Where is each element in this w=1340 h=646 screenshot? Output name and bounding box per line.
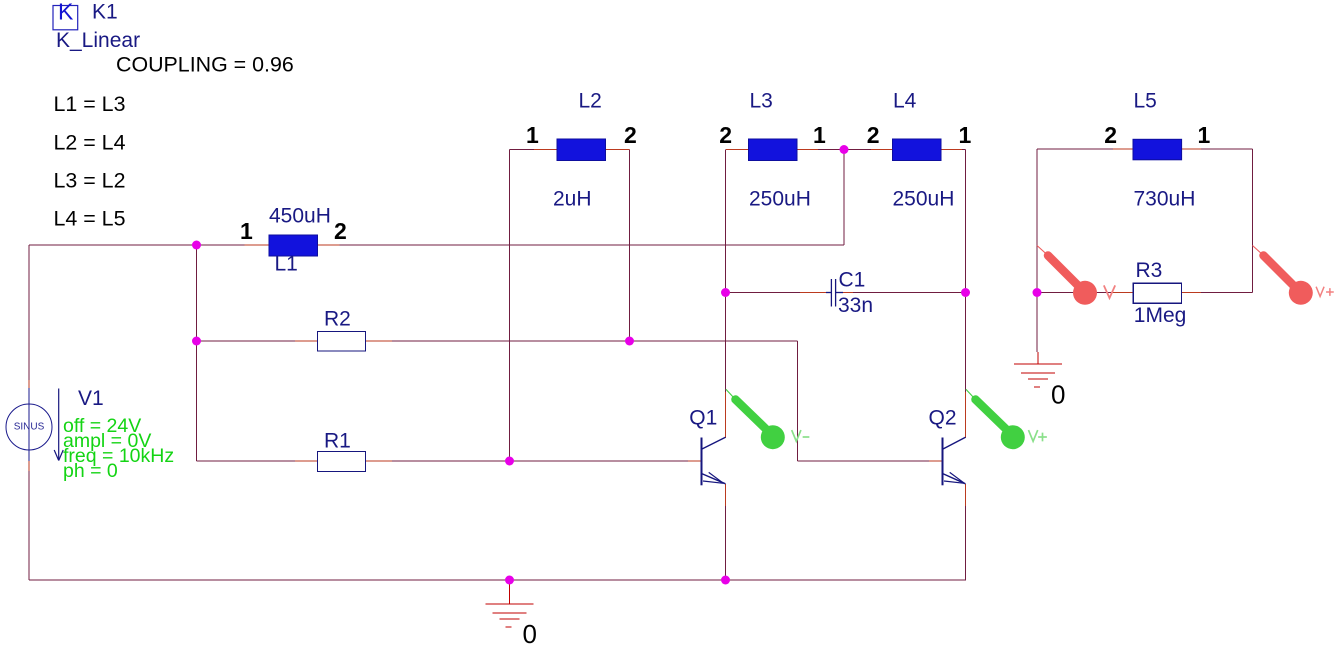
svg-text:L3 = L2: L3 = L2 <box>54 169 126 193</box>
svg-text:L5: L5 <box>1134 90 1157 113</box>
svg-text:1: 1 <box>526 122 539 148</box>
svg-text:2: 2 <box>334 218 347 244</box>
svg-text:0: 0 <box>1051 380 1065 410</box>
svg-text:SINUS: SINUS <box>14 421 45 432</box>
svg-text:33n: 33n <box>838 294 873 317</box>
svg-text:2uH: 2uH <box>553 187 592 210</box>
svg-text:730uH: 730uH <box>1134 187 1196 210</box>
svg-text:K1: K1 <box>92 1 118 24</box>
svg-text:C1: C1 <box>839 268 866 291</box>
svg-text:2: 2 <box>624 122 637 148</box>
svg-text:L2: L2 <box>579 90 602 113</box>
svg-text:2: 2 <box>1104 122 1117 148</box>
svg-text:250uH: 250uH <box>749 187 811 210</box>
svg-text:1: 1 <box>1198 122 1211 148</box>
svg-text:L1: L1 <box>275 253 298 276</box>
svg-text:V1: V1 <box>78 387 104 410</box>
svg-text:1Meg: 1Meg <box>1134 304 1187 327</box>
svg-text:R3: R3 <box>1136 259 1163 282</box>
svg-text:K_Linear: K_Linear <box>56 29 140 52</box>
svg-text:1: 1 <box>813 122 826 148</box>
svg-text:L2 = L4: L2 = L4 <box>54 131 126 155</box>
svg-text:COUPLING = 0.96: COUPLING = 0.96 <box>116 53 294 77</box>
svg-text:2: 2 <box>867 122 880 148</box>
svg-text:L1 = L3: L1 = L3 <box>54 92 126 116</box>
svg-text:L3: L3 <box>750 90 773 113</box>
svg-text:Q1: Q1 <box>689 407 717 430</box>
svg-text:L4 = L5: L4 = L5 <box>54 207 126 231</box>
svg-text:R2: R2 <box>324 307 351 330</box>
svg-text:ph = 0: ph = 0 <box>63 460 118 482</box>
svg-text:L4: L4 <box>893 90 917 113</box>
svg-text:1: 1 <box>240 218 253 244</box>
svg-text:2: 2 <box>719 122 732 148</box>
svg-text:K: K <box>58 0 74 25</box>
svg-text:R1: R1 <box>324 429 351 452</box>
svg-text:Q2: Q2 <box>929 407 957 430</box>
svg-text:450uH: 450uH <box>269 204 331 227</box>
svg-text:1: 1 <box>959 122 972 148</box>
svg-text:0: 0 <box>523 619 537 646</box>
svg-text:250uH: 250uH <box>893 187 955 210</box>
